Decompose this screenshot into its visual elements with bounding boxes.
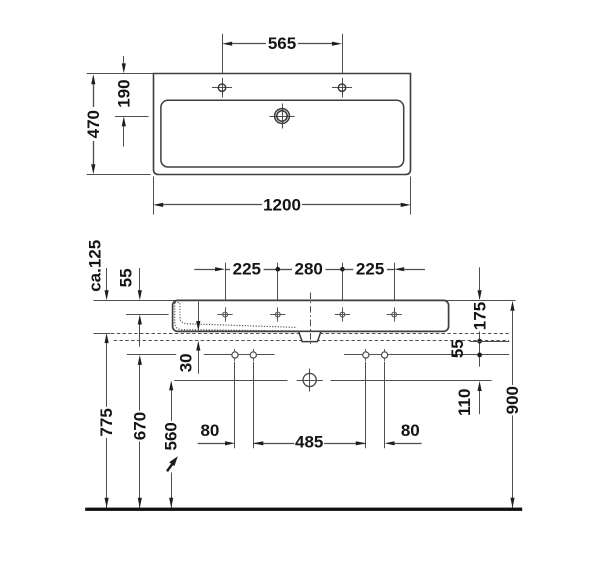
svg-text:670: 670 bbox=[130, 412, 149, 440]
svg-text:55: 55 bbox=[448, 339, 467, 358]
svg-text:55: 55 bbox=[116, 268, 135, 287]
svg-text:30: 30 bbox=[176, 353, 195, 372]
svg-text:80: 80 bbox=[401, 421, 420, 440]
svg-text:1200: 1200 bbox=[263, 195, 301, 214]
svg-text:470: 470 bbox=[84, 110, 103, 138]
svg-text:175: 175 bbox=[470, 302, 489, 330]
svg-text:ca.125: ca.125 bbox=[86, 240, 105, 292]
svg-text:560: 560 bbox=[162, 422, 181, 450]
svg-text:80: 80 bbox=[200, 421, 219, 440]
svg-text:775: 775 bbox=[97, 408, 116, 436]
svg-text:225: 225 bbox=[356, 260, 384, 279]
svg-text:110: 110 bbox=[455, 389, 474, 416]
svg-text:900: 900 bbox=[503, 386, 522, 414]
svg-text:485: 485 bbox=[295, 432, 323, 451]
svg-text:190: 190 bbox=[114, 79, 133, 107]
svg-text:565: 565 bbox=[268, 34, 296, 53]
svg-text:280: 280 bbox=[295, 260, 323, 279]
svg-text:225: 225 bbox=[233, 260, 261, 279]
